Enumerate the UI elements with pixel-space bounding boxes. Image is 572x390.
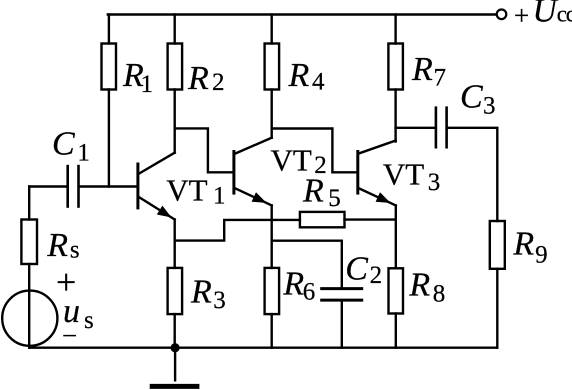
svg-text:VT: VT	[166, 172, 207, 207]
svg-text:R: R	[288, 57, 310, 94]
svg-text:C: C	[52, 126, 75, 163]
svg-text:R: R	[512, 226, 534, 263]
svg-text:U: U	[533, 0, 560, 30]
svg-text:8: 8	[433, 281, 446, 308]
svg-text:1: 1	[213, 183, 226, 210]
svg-text:R: R	[408, 267, 430, 304]
svg-text:3: 3	[213, 287, 226, 314]
svg-text:R: R	[282, 265, 304, 302]
svg-text:+: +	[514, 1, 529, 31]
svg-text:cc: cc	[557, 2, 572, 27]
svg-text:C: C	[345, 251, 368, 288]
svg-text:s: s	[70, 236, 80, 263]
svg-text:R: R	[190, 273, 212, 310]
svg-text:R: R	[411, 51, 433, 88]
svg-text:R: R	[46, 227, 68, 264]
svg-text:−: −	[62, 321, 77, 351]
svg-text:3: 3	[428, 169, 441, 196]
svg-text:VT: VT	[383, 157, 424, 192]
svg-text:2: 2	[212, 69, 225, 96]
svg-text:1: 1	[141, 71, 154, 98]
svg-text:5: 5	[328, 185, 341, 212]
svg-text:3: 3	[483, 92, 496, 119]
svg-text:R: R	[187, 60, 209, 97]
svg-text:4: 4	[312, 69, 325, 96]
svg-text:R: R	[302, 173, 324, 210]
svg-text:7: 7	[434, 65, 447, 92]
svg-text:2: 2	[370, 262, 383, 289]
svg-text:9: 9	[535, 241, 548, 268]
svg-text:C: C	[460, 79, 483, 116]
svg-text:1: 1	[77, 140, 90, 167]
svg-text:s: s	[84, 307, 94, 334]
svg-text:6: 6	[303, 279, 316, 306]
